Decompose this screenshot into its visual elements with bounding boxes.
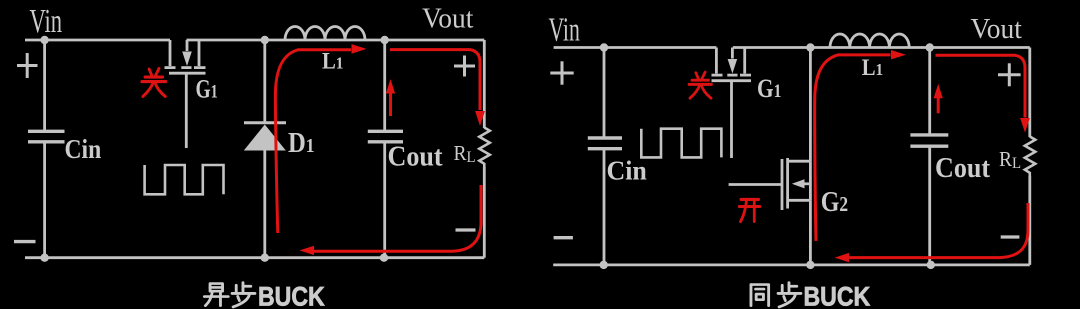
transistor G1 (left circuit, high-side switch): [165, 40, 206, 148]
label L1 (right): [862, 55, 883, 80]
red return path bottom: [314, 185, 481, 251]
label G1 (right): [757, 75, 781, 103]
node input bottom (right): [600, 261, 608, 269]
red arrowhead Cout (right): [934, 84, 943, 99]
diode D1 vertical wire lower: [263, 150, 266, 258]
wire top rail mid segment (right circuit): [733, 46, 1030, 49]
node output top: [381, 36, 389, 44]
wire top rail mid segment (switch node to Vout corner): [187, 39, 485, 42]
red char guan (right G1 off): [689, 72, 712, 98]
capacitor Cout wire lower: [383, 142, 386, 258]
capacitor Cout wire lower (right): [928, 146, 931, 265]
plus output: [454, 56, 475, 77]
transistor G1 body arrow (right): [728, 59, 738, 74]
red arrowhead at L1 output (right): [891, 50, 906, 59]
label G1: [196, 75, 218, 103]
minus output (right): [1001, 235, 1020, 238]
resistor RL (left): [479, 128, 490, 168]
inductor L1 (left): [285, 27, 365, 40]
transistor G1 (right circuit, high-side switch): [712, 48, 752, 159]
label RL (left): [454, 142, 476, 166]
svg-text:Cout: Cout: [388, 139, 444, 172]
wire bottom rail (right circuit): [553, 263, 1030, 266]
node input top: [40, 36, 48, 44]
svg-text:Vin: Vin: [549, 12, 580, 49]
red arrowhead at L1 output: [352, 44, 367, 54]
svg-text:BUCK: BUCK: [258, 282, 325, 309]
gate drive square wave (right): [641, 129, 721, 158]
node Cout bottom: [380, 254, 388, 262]
red arrowhead return (right): [835, 253, 849, 262]
red arrowhead Cout: [386, 79, 395, 94]
label G2: [821, 185, 848, 218]
red char guan (G1 off): [142, 69, 166, 97]
capacitor Cout wire upper (right): [928, 48, 931, 135]
red current path: Vout corner down to RL (right): [936, 55, 1026, 117]
wire bottom rail: [25, 256, 484, 259]
svg-text:Cin: Cin: [65, 135, 102, 165]
node switch/diode top: [261, 36, 269, 44]
wire right output rail upper: [483, 40, 486, 128]
capacitor Cin (right): [588, 138, 622, 149]
label: async BUCK title: [204, 282, 324, 309]
minus input (right): [554, 236, 573, 239]
plus input: [17, 53, 38, 78]
node output top (right): [926, 43, 934, 51]
transistor G1 body arrow: [182, 52, 192, 67]
label: sync BUCK title: [751, 282, 870, 309]
svg-text:Vout: Vout: [971, 13, 1023, 44]
label RL (right): [999, 148, 1021, 172]
svg-text:BUCK: BUCK: [804, 282, 871, 309]
label D1: [288, 128, 315, 159]
wire top rail left segment (right circuit): [554, 46, 717, 49]
capacitor Cout plates (right): [910, 135, 948, 146]
diode D1 anode triangle: [244, 125, 286, 151]
node input bottom: [40, 254, 48, 262]
red return path bottom (right): [849, 203, 1028, 258]
minus output: [456, 228, 476, 231]
node input top (right): [600, 43, 608, 51]
red current path: G2 up through L1 (right): [815, 55, 891, 241]
label L1 (left): [322, 49, 343, 74]
diode D1 cathode bar: [244, 121, 286, 124]
red arrowhead return: [300, 246, 314, 255]
svg-text:Vin: Vin: [30, 3, 63, 41]
gate drive square wave (left): [145, 165, 224, 194]
red char kai (G2 on): [739, 199, 760, 221]
svg-text:Vout: Vout: [422, 2, 474, 33]
svg-text:Cout: Cout: [935, 151, 991, 184]
node Cout bottom (right): [927, 261, 935, 269]
wire top rail left segment: [25, 39, 170, 42]
transistor G2 (low-side synchronous switch): [729, 48, 811, 265]
node G2 source bottom (right): [806, 261, 814, 269]
capacitor Cout plates: [368, 131, 403, 142]
red arrow Cout charging (right): [937, 98, 940, 113]
capacitor Cin: [28, 131, 65, 142]
red arrowhead into RL: [475, 111, 485, 126]
red arrowhead into RL (right): [1020, 118, 1030, 133]
diode D1 vertical wire upper: [263, 40, 266, 122]
red current path: Vout corner down to RL: [390, 50, 480, 110]
wire right output rail lower (right circuit): [1028, 176, 1031, 265]
plus output (right): [998, 63, 1021, 86]
node switch top (right): [806, 43, 814, 51]
wire right output rail lower: [483, 167, 486, 258]
red current path: D1 up through L1: [275, 50, 351, 233]
node diode bottom: [261, 254, 269, 262]
minus input: [14, 240, 36, 243]
capacitor Cout wire upper: [383, 40, 386, 131]
svg-text:Cin: Cin: [607, 155, 648, 186]
plus input (right): [550, 61, 573, 84]
inductor L1 (right): [830, 34, 909, 48]
wire left input rail lower: [43, 142, 46, 258]
wire left input rail upper: [43, 40, 46, 131]
wire right output rail upper (right circuit): [1028, 48, 1031, 138]
resistor RL (right): [1025, 137, 1036, 177]
red arrow Cout charging: [389, 93, 392, 116]
wire left input rail lower (right circuit): [603, 149, 606, 265]
wire left input rail upper (right circuit): [603, 48, 606, 138]
transistor G2 body arrow: [792, 179, 805, 188]
